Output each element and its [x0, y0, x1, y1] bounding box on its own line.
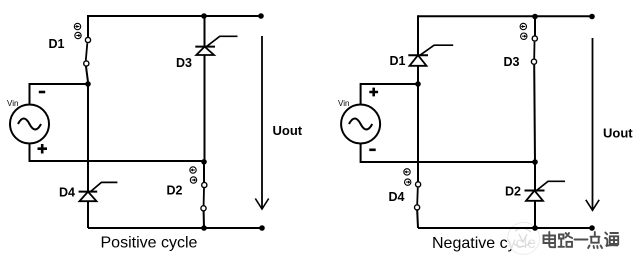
blocked current indicator (right D3, lower)	[521, 33, 527, 39]
svg-text:D2: D2	[167, 184, 183, 198]
wire node A down to switch D4 (right)	[417, 84, 419, 182]
wire bottom rail (right circuit)	[418, 227, 592, 229]
node B right circuit : D3/D2 junction with source bottom terminal	[532, 159, 538, 165]
svg-text:D4: D4	[389, 190, 405, 204]
blocked current indicator (D1, lower)	[75, 32, 81, 38]
node top rail / D3 branch junction	[201, 13, 207, 19]
node bottom rail right end	[259, 225, 265, 231]
switch D3 (open, right circuit)	[531, 36, 537, 64]
svg-text:D3: D3	[176, 56, 192, 70]
wire source top terminal to node A (right)	[361, 84, 418, 104]
svg-text:Vin: Vin	[338, 99, 349, 108]
node D2 branch bottom redrawn over watermark logo	[532, 225, 538, 231]
wire switch D2 to bottom rail	[203, 211, 205, 228]
glyph 一	[575, 239, 588, 241]
svg-text:Positive cycle: Positive cycle	[101, 235, 198, 252]
polarity + (right source top)	[369, 88, 378, 97]
svg-text:Uout: Uout	[603, 126, 633, 141]
svg-text:D3: D3	[504, 55, 520, 69]
switch D2 (open)	[201, 182, 207, 211]
wire left branch rail to thyristor D1 (right)	[417, 15, 419, 55]
switch D4 (open, right circuit)	[415, 182, 421, 210]
wire left branch node A down to thyristor D4	[87, 84, 89, 191]
wire switch D4 to bottom rail (right)	[416, 210, 419, 228]
wire source bottom terminal to node B	[30, 144, 205, 161]
thyristor D1 (right)	[408, 45, 453, 66]
node A right circuit : D1/D4 junction with source top terminal	[415, 81, 421, 87]
wire right branch rail to switch D3 (right)	[534, 16, 536, 35]
blocked current indicator (right D4, upper)	[404, 169, 410, 175]
wire bottom rail segment redrawn over watermark logo	[507, 227, 545, 229]
glyph 点	[588, 232, 602, 248]
wire bottom rail (left circuit)	[88, 227, 262, 229]
AC source Vin (left)	[10, 105, 49, 144]
wire source bottom terminal to node B (right)	[361, 144, 535, 162]
blocked current indicator (right D3, upper)	[520, 23, 526, 29]
polarity - (right source bottom)	[369, 149, 375, 152]
watermark logo circle	[508, 222, 540, 254]
wire left branch from rail down to switch D1	[87, 15, 89, 37]
wire right branch rail to thyristor D3	[204, 16, 206, 47]
wire D2 branch lower segment redrawn over watermark logo	[534, 222, 536, 228]
svg-text:D1: D1	[49, 37, 65, 51]
wire node B to switch D2	[203, 162, 205, 183]
wire top rail (right circuit)	[418, 15, 592, 17]
polarity - (left source top)	[39, 91, 45, 94]
blocked current indicator (D2, upper)	[190, 167, 196, 173]
node A : D1/D4 junction with source top terminal	[85, 81, 91, 87]
glyph 路	[559, 233, 573, 247]
switch D1 (open)	[84, 37, 91, 66]
blocked current indicator (right D4, lower)	[405, 179, 411, 185]
AC source Vin (right)	[341, 105, 380, 144]
wire D1 to node A (right)	[417, 66, 419, 84]
watermark text 电路一点通	[544, 232, 619, 248]
glyph 电	[544, 232, 556, 247]
svg-text:D4: D4	[59, 186, 75, 200]
node bottom rail / D2 branch junction	[201, 225, 207, 231]
node top rail right end (right)	[589, 14, 595, 20]
polarity + (left source bottom)	[38, 144, 48, 154]
wire D3 to node B	[204, 55, 206, 161]
svg-text:Vin: Vin	[7, 99, 18, 108]
thyristor D2 (right)	[525, 181, 566, 201]
thyristor D3	[195, 36, 237, 55]
glyph 通	[605, 233, 618, 247]
svg-text:D2: D2	[505, 185, 521, 199]
node bottom rail right end (right)	[589, 225, 595, 231]
blocked current indicator (D1, upper)	[74, 23, 80, 29]
wire D2 to bottom rail (right)	[534, 201, 536, 228]
wire top rail (left circuit)	[88, 15, 261, 17]
node top rail right end	[258, 13, 264, 19]
wire switch D1 to node A	[86, 67, 88, 83]
blocked current indicator (D2, lower)	[190, 177, 196, 183]
wire D4 to bottom rail	[87, 201, 89, 228]
wire node B to thyristor D2 (right)	[534, 162, 536, 190]
svg-text:Uout: Uout	[273, 123, 303, 138]
wire switch D3 to node B (right)	[533, 65, 536, 162]
output arrow Uout (left)	[255, 36, 268, 209]
output arrow Uout (right)	[586, 38, 599, 210]
node B : D3/D2 junction with source bottom terminal	[201, 159, 207, 165]
svg-text:D1: D1	[390, 54, 406, 68]
wire source top terminal to node A	[30, 84, 89, 104]
node top rail / D3 branch junction (right)	[532, 14, 538, 20]
node bottom rail / D2 branch junction (right)	[532, 225, 538, 231]
thyristor D4	[79, 182, 118, 201]
